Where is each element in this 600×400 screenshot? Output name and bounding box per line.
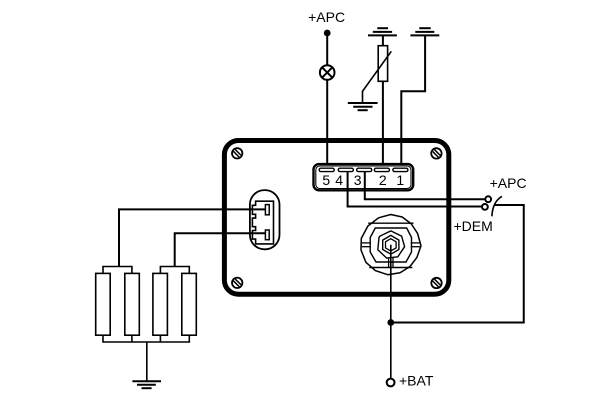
svg-text:4: 4: [335, 172, 343, 188]
svg-text:1: 1: [396, 172, 404, 188]
svg-text:+APC: +APC: [490, 175, 527, 191]
svg-text:5: 5: [322, 172, 330, 188]
svg-text:+DEM: +DEM: [454, 218, 493, 234]
svg-text:+BAT: +BAT: [399, 372, 434, 388]
svg-text:+APC: +APC: [308, 9, 345, 25]
svg-text:2: 2: [379, 172, 387, 188]
svg-text:3: 3: [354, 172, 362, 188]
